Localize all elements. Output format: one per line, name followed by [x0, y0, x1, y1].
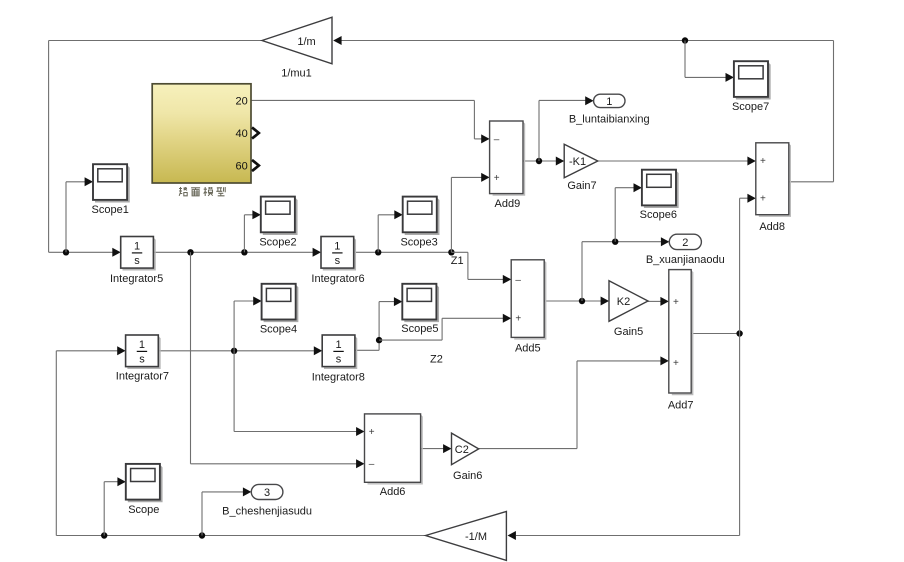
svg-text:Integrator8: Integrator8	[312, 371, 365, 383]
wire arrow into Gain5	[601, 297, 609, 306]
scope Scope3	[400, 197, 438, 249]
svg-text:60: 60	[236, 160, 248, 172]
wire arrow into Add9 plus	[481, 173, 489, 182]
wire: bus up to Add8 second input	[740, 198, 749, 333]
wire: Add9 output to Gain7	[523, 160, 558, 162]
svg-text:Add8: Add8	[759, 221, 785, 233]
node Z2 junction	[376, 337, 382, 343]
wire arrow into Integrator7	[117, 346, 125, 355]
svg-text:B_cheshenjiasudu: B_cheshenjiasudu	[222, 506, 312, 518]
scope Scope1	[92, 164, 129, 216]
scope Scope5	[401, 284, 438, 335]
svg-text:1: 1	[606, 96, 612, 108]
output port 2 (B_xuanjianaodu)	[646, 234, 725, 266]
wire arrow into gain 1/mu1	[333, 36, 341, 45]
svg-text:20: 20	[236, 95, 248, 107]
wire arrow into Add5 minus	[503, 275, 511, 284]
output port 3 (B_cheshenjiasudu)	[222, 484, 312, 517]
svg-text:Integrator5: Integrator5	[110, 273, 163, 285]
wire arrow into Add8 second plus	[747, 194, 755, 203]
node: junction for Scope1 branch	[63, 249, 69, 255]
svg-text:Scope5: Scope5	[401, 323, 438, 335]
svg-text:s: s	[336, 354, 342, 366]
scope Scope7	[732, 61, 770, 113]
wire: bus down to gain -1/M	[516, 334, 740, 536]
wire: branch to Scope1	[66, 182, 87, 253]
svg-text:Scope1: Scope1	[92, 204, 129, 216]
svg-text:Scope2: Scope2	[259, 236, 296, 248]
wire: Gain5 output to Add7 first input	[648, 300, 662, 302]
wire: gain -1/M output along bottom and up to Integrator7	[56, 351, 425, 536]
wire arrow into Scope4	[253, 297, 261, 306]
svg-text:s: s	[134, 255, 140, 267]
svg-text:1: 1	[134, 241, 140, 253]
svg-text:Gain7: Gain7	[567, 180, 596, 192]
gain Gain6	[452, 433, 483, 482]
wire arrow into Integrator5	[112, 248, 120, 257]
svg-text:+: +	[515, 314, 521, 325]
port chevron 60	[252, 160, 259, 171]
wire: subsystem port 20 to Add9 minus input	[251, 100, 483, 138]
svg-text:Add6: Add6	[380, 486, 406, 498]
port chevron 40	[252, 127, 259, 138]
svg-text:Add9: Add9	[495, 198, 521, 210]
svg-text:2: 2	[682, 237, 688, 249]
wire: Add6 output to Gain6	[421, 448, 445, 450]
node: junction for Scope branch	[101, 532, 107, 538]
subsystem 路面模型 (road surface model)	[152, 84, 251, 183]
wire arrow into outport 3	[243, 487, 251, 496]
svg-text:+: +	[760, 194, 766, 205]
wire: Gain7 output to Add8 first input	[598, 160, 749, 162]
svg-text:Z1: Z1	[451, 255, 464, 267]
wire: branch up to outport 2	[582, 242, 663, 301]
svg-text:Add5: Add5	[515, 342, 541, 354]
wire: branch to Scope7	[685, 41, 728, 78]
svg-text:K2: K2	[617, 296, 630, 308]
wire arrow into Add5 plus	[503, 314, 511, 323]
wire: branch up to outport 3	[202, 492, 245, 536]
svg-text:–: –	[494, 134, 500, 145]
wire: Add7 output to vertical bus	[691, 333, 739, 335]
wire arrow into Scope6	[634, 183, 642, 192]
node: junction on Add7 output bus	[736, 330, 742, 336]
svg-text:-1/M: -1/M	[465, 531, 487, 543]
wire arrow into Integrator6	[313, 248, 321, 257]
wire arrow into Add7 first plus	[660, 297, 668, 306]
gain 1/mu1	[262, 17, 332, 79]
scope Scope	[126, 464, 162, 516]
wire arrow into Add8 first plus	[747, 157, 755, 166]
svg-text:Scope4: Scope4	[260, 324, 297, 336]
svg-text:Gain5: Gain5	[614, 326, 643, 338]
wire: branch up to outport 1	[539, 100, 586, 161]
svg-text:Integrator6: Integrator6	[311, 273, 364, 285]
svg-text:Scope7: Scope7	[732, 101, 769, 113]
node: junction on Add5 output	[579, 298, 585, 304]
svg-text:Gain6: Gain6	[453, 470, 482, 482]
svg-text:Integrator7: Integrator7	[116, 371, 169, 383]
wire arrow into Scope1	[85, 177, 93, 186]
wire arrow into Gain7	[556, 157, 564, 166]
wire: branch up to Scope2	[244, 215, 254, 253]
gain Gain7	[564, 144, 598, 192]
svg-text:1: 1	[335, 339, 341, 351]
svg-text:C2: C2	[455, 444, 469, 456]
scope Scope4	[260, 284, 298, 336]
wire: node Z2 to Add5 plus input	[379, 318, 504, 340]
svg-text:Add7: Add7	[668, 400, 694, 412]
sum block Add9	[490, 121, 525, 210]
wire: branch up to Scope	[104, 482, 119, 536]
svg-text:Scope3: Scope3	[400, 236, 437, 248]
svg-text:40: 40	[236, 128, 248, 140]
svg-text:+: +	[369, 427, 375, 438]
svg-text:+: +	[673, 358, 679, 369]
wire: Add5 output to Gain5	[544, 300, 602, 302]
gain Gain5	[609, 281, 648, 338]
scope Scope6	[640, 170, 678, 221]
node: junction below Scope4	[231, 348, 237, 354]
subsystem name 路面模型 (drawn strokes)	[179, 187, 225, 196]
node: junction to Add6 minus branch	[187, 249, 193, 255]
wire arrow into Add6 minus	[356, 459, 364, 468]
gain -1/M	[426, 512, 507, 561]
wire arrow into Add7 second plus	[660, 356, 668, 365]
wire: Integrator5 output to Integrator6	[153, 251, 314, 253]
wire: branch down to Add6 minus input	[191, 252, 359, 463]
output port 1 (B_luntaibianxing)	[569, 94, 650, 126]
svg-text:B_xuanjianaodu: B_xuanjianaodu	[646, 254, 725, 266]
sum block Add6	[365, 414, 423, 498]
wire arrow into outport 2	[661, 237, 669, 246]
wire: Integrator7 output to Integrator8	[158, 350, 315, 352]
scope Scope2	[259, 197, 296, 249]
wire: Integrator8 output to node Z2	[355, 302, 379, 351]
wire arrow into Scope	[117, 477, 125, 486]
svg-text:+: +	[673, 297, 679, 308]
sum block Add5	[511, 260, 546, 355]
node: junction for Scope6 branch	[612, 239, 618, 245]
integrator Integrator6	[311, 237, 364, 285]
svg-text:–: –	[515, 275, 521, 286]
wire: gain 1/mu1 output down left side to Integrator5	[49, 41, 262, 253]
node: junction for outport 3 branch	[199, 532, 205, 538]
svg-text:s: s	[139, 354, 145, 366]
svg-text:3: 3	[264, 487, 270, 499]
wire: Integrator6 output to node Z1	[354, 251, 451, 253]
svg-text:-K1: -K1	[569, 156, 586, 168]
node: junction on top feedback wire	[682, 37, 688, 43]
wire arrow into Add6 plus	[356, 427, 364, 436]
wire: branch up to Scope6	[615, 188, 635, 242]
svg-text:1: 1	[139, 339, 145, 351]
node: junction to outport 1 branch	[536, 158, 542, 164]
node Z1	[448, 249, 454, 255]
wire arrow into Integrator8	[314, 346, 322, 355]
wire arrow into Gain6	[443, 444, 451, 453]
wire: branch down to Add6 plus input	[234, 351, 358, 432]
integrator Integrator7	[116, 335, 169, 383]
wire: branch to Scope5	[379, 301, 396, 303]
svg-text:B_luntaibianxing: B_luntaibianxing	[569, 114, 650, 126]
wire: branch up to Scope4	[234, 301, 255, 351]
wire arrow into Scope3	[394, 210, 402, 219]
wire: node Z1 up to Add9 plus input	[451, 177, 483, 252]
svg-text:–: –	[369, 459, 375, 470]
svg-text:Scope: Scope	[128, 504, 159, 516]
svg-text:+: +	[494, 173, 500, 184]
wire arrow into Scope7	[726, 73, 734, 82]
sum block Add7	[668, 270, 694, 412]
wire arrow into Scope5	[394, 297, 402, 306]
node: junction to Scope2 branch	[241, 249, 247, 255]
svg-text:Z2: Z2	[430, 354, 443, 366]
svg-text:s: s	[335, 255, 341, 267]
wire: Gain6 output to Add7 second input	[479, 361, 663, 449]
node: junction to Scope3 branch	[375, 249, 381, 255]
svg-text:1: 1	[334, 241, 340, 253]
wire arrow into outport 1	[585, 96, 593, 105]
wire: Add8 output feedback to top	[335, 41, 834, 182]
wire: node Z1 to Add5 minus input	[451, 252, 504, 279]
svg-text:+: +	[760, 156, 766, 167]
integrator Integrator5	[110, 237, 163, 285]
wire arrow into gain -1/M	[508, 531, 516, 540]
wire arrow into Add9 minus	[481, 134, 489, 143]
wire: branch up to Scope3	[378, 215, 396, 253]
sum block Add8	[756, 143, 791, 233]
integrator Integrator8	[312, 335, 365, 383]
svg-text:1/mu1: 1/mu1	[281, 67, 312, 79]
wire arrow into Scope2	[252, 210, 260, 219]
svg-text:Scope6: Scope6	[640, 209, 677, 221]
svg-text:1/m: 1/m	[297, 36, 315, 48]
